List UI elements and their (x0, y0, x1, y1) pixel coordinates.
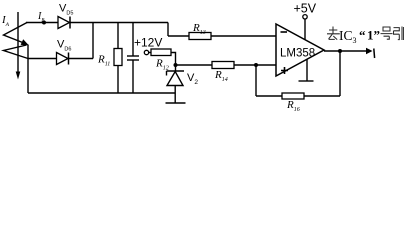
zener bottom lead to earth (174, 86, 176, 104)
feedback riser (339, 51, 341, 96)
PSD zigzag 1 (to top wire) (4, 23, 28, 44)
node feedback tap dot (254, 63, 258, 67)
zener V2 triangle (167, 72, 183, 86)
resistor R14 (212, 62, 234, 69)
op-amp ground bar (299, 80, 314, 82)
output wire (324, 50, 367, 52)
annotation: jiao (脚) character partial (403, 27, 404, 40)
R11 top stub (117, 23, 119, 49)
wire R12 right to column (171, 53, 176, 72)
op-amp ground stub (306, 60, 308, 82)
svg-text:+5V: +5V (294, 2, 317, 16)
diode V_D6 cathode bar (68, 53, 70, 65)
svg-text:“: “ (359, 28, 366, 43)
output pin tick (373, 49, 376, 59)
svg-text:LM358: LM358 (280, 48, 315, 60)
diode V_D6 triangle (57, 53, 69, 65)
+12V terminal (144, 50, 148, 54)
node zener/R14 junction dot (174, 63, 178, 67)
PSD zigzag 2 (4, 45, 29, 59)
svg-text:+12V: +12V (134, 36, 162, 50)
wire R14 to op-amp plus (234, 64, 276, 66)
node output junction dot (338, 49, 342, 53)
annotation: qu (去) character (327, 27, 340, 40)
top wire (anode V_D5 row) (26, 22, 58, 24)
wire node to R14 (176, 64, 213, 66)
node I_B junction dot (42, 21, 46, 25)
op-amp minus mark (281, 31, 288, 33)
+12V terminal wire (149, 52, 151, 54)
capacitor plate top (127, 55, 139, 57)
+5V terminal (303, 15, 307, 19)
wire corner down to R13 row (167, 23, 169, 37)
zener V2 cathode bar with hook (167, 71, 185, 76)
feedback tap down (255, 65, 257, 96)
annotation: hao (号) character (381, 27, 393, 39)
diode V_D5 triangle (58, 17, 70, 29)
ground rail (28, 92, 175, 94)
output arrowhead (366, 48, 373, 54)
resistor R13 (189, 33, 211, 40)
svg-text:”: ” (374, 28, 381, 43)
feedback bottom wire left (256, 95, 282, 97)
resistor R12 (151, 49, 171, 56)
wire V_D6 cathode (69, 58, 94, 60)
+5V lead (304, 19, 306, 40)
capacitor top lead (132, 23, 134, 57)
PSD common lead (27, 45, 29, 94)
wire R13 to op-amp minus (211, 35, 276, 37)
op-amp plus mark (281, 67, 288, 74)
branch V_D5/V_D6 join (92, 23, 94, 59)
PSD photocell arrow (vertical, down) (17, 12, 19, 72)
resistor R16 (282, 93, 304, 99)
wire V_D6 anode row (28, 58, 57, 60)
R11 bottom stub (117, 66, 119, 94)
capacitor bottom lead (132, 60, 134, 93)
earth ground bar (166, 102, 186, 104)
PSD zigzag arrowhead (21, 39, 29, 45)
feedback bottom wire right (304, 95, 340, 97)
wire to R13 (168, 35, 189, 37)
capacitor plate bottom (127, 59, 139, 61)
op-amp U1 LM358 triangle (276, 24, 324, 76)
diode V_D5 cathode bar (69, 17, 71, 29)
annotation: yin (引) character (394, 27, 403, 41)
wire V_D5 cathode to corner (70, 22, 168, 24)
resistor R11 (114, 49, 122, 66)
PSD arrowhead (down) (16, 72, 21, 80)
